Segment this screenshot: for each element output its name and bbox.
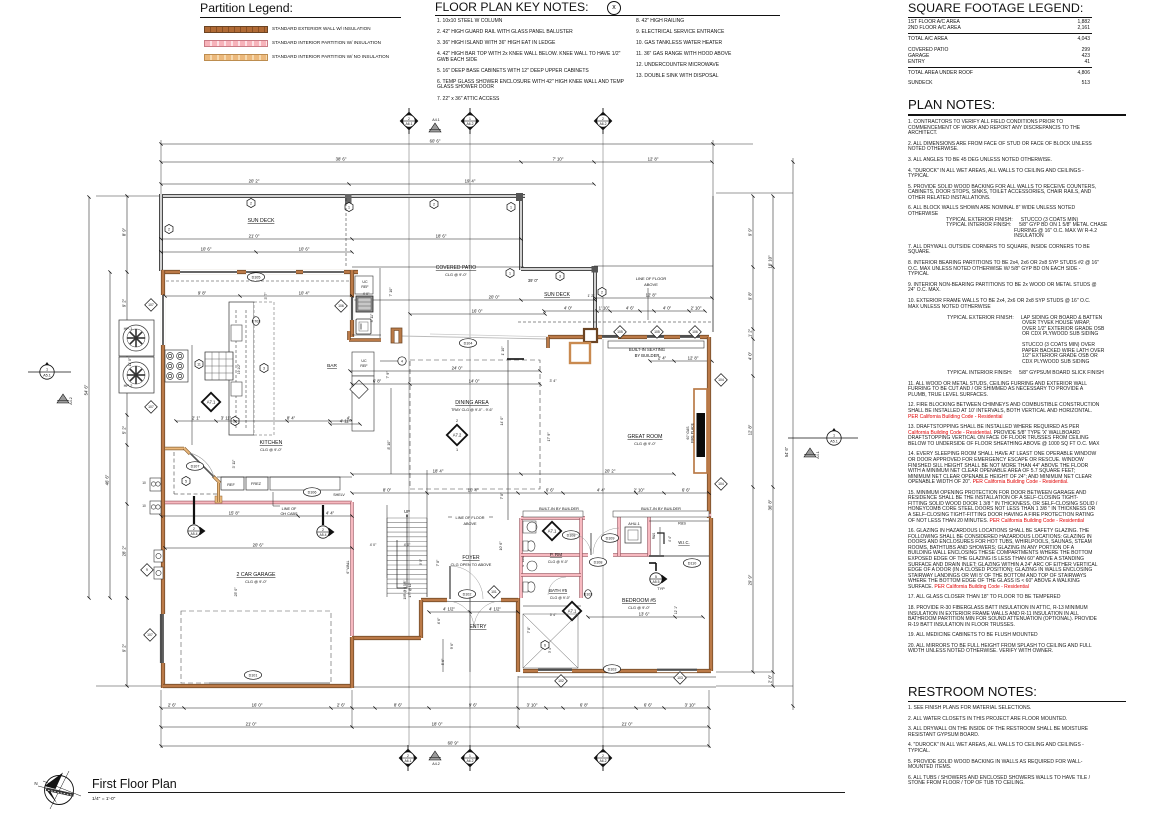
svg-text:107: 107 (148, 303, 154, 307)
stair arrow (406, 514, 408, 588)
garage east pink wall (6in) (350, 502, 353, 636)
svg-text:102: 102 (558, 679, 564, 683)
svg-text:16' 0": 16' 0" (472, 309, 483, 314)
svg-text:A5.4: A5.4 (191, 532, 198, 536)
entry door arc (447, 601, 474, 628)
svg-text:2' 10": 2' 10" (691, 306, 702, 311)
tag 103 (674, 672, 687, 685)
svg-text:D102: D102 (463, 592, 472, 596)
svg-text:1' 10": 1' 10" (501, 346, 505, 356)
deck step wall horizontal (521, 267, 595, 271)
entry north wall w (421, 598, 447, 602)
ext line top left (96, 195, 161, 197)
svg-text:A6.2: A6.2 (600, 122, 607, 126)
kitchen top dims (163, 291, 353, 298)
garage left window (161, 614, 166, 663)
svg-text:REF: REF (227, 483, 235, 487)
sun deck right wall (519, 196, 523, 270)
pink wall bedroom north (613, 513, 711, 516)
deck column (516, 193, 523, 201)
svg-text:5' 4": 5' 4" (550, 613, 557, 617)
svg-text:21' 0": 21' 0" (622, 722, 633, 727)
left dim chain 54'6" (84, 195, 91, 599)
svg-text:UP: UP (404, 509, 410, 514)
AHU unit (625, 527, 641, 543)
svg-text:3' 4": 3' 4" (550, 379, 558, 383)
wic door header (649, 555, 664, 557)
section line 2/A6.2 vertical (602, 131, 604, 745)
svg-text:104: 104 (718, 378, 724, 382)
exterior wall left mid (161, 447, 165, 540)
door tag (584, 590, 593, 599)
svg-text:9' 2": 9' 2" (122, 298, 127, 307)
svg-text:10' 4": 10' 4" (299, 291, 310, 296)
svg-text:CLG @ 9'-0": CLG @ 9'-0" (548, 560, 569, 564)
window GR north 3 (680, 335, 700, 340)
svg-text:COVERED PATIO: COVERED PATIO (436, 265, 476, 271)
deck dim 12'8 (593, 293, 713, 300)
bottom dim chain 1 (159, 703, 710, 710)
bottom dim chain 2 (159, 722, 710, 729)
svg-text:A7.2: A7.2 (453, 433, 462, 438)
door arc ahu (593, 528, 619, 554)
svg-text:10' 4": 10' 4" (468, 488, 479, 493)
tan column (215, 496, 222, 503)
svg-text:REF: REF (361, 285, 369, 289)
svg-text:First Floor Plan: First Floor Plan (92, 777, 177, 791)
tag 102 (555, 675, 568, 688)
svg-text:BY BUILDER: BY BUILDER (635, 353, 660, 358)
closet shelf line (649, 520, 709, 522)
svg-text:8' 10": 8' 10" (387, 440, 391, 450)
svg-text:25' 0": 25' 0" (234, 587, 238, 597)
door tag D110 (683, 559, 700, 568)
svg-text:10: 10 (142, 481, 146, 485)
svg-text:D103: D103 (608, 667, 617, 671)
dining east wall line (507, 340, 509, 520)
HP-1 / HP-2 condenser units (119, 320, 154, 393)
section marker 2/A6.1 top (400, 108, 419, 134)
svg-text:D101: D101 (249, 673, 258, 677)
kitchen lower dims (174, 416, 357, 423)
svg-text:105: 105 (654, 330, 660, 334)
range / stove (165, 350, 188, 382)
uc ref patio (355, 276, 373, 294)
svg-text:4' 0": 4' 0" (404, 543, 411, 547)
patio dim 16'0 (408, 309, 546, 316)
svg-text:20' 2": 20' 2" (249, 179, 260, 184)
dashed patio line (345, 198, 347, 268)
patio nook wall (349, 338, 381, 342)
svg-text:D110: D110 (688, 561, 697, 565)
entry north wall e (501, 598, 518, 602)
svg-text:60' 6": 60' 6" (430, 139, 441, 144)
sun deck top wall (159, 194, 525, 198)
kitchen east wall (350, 270, 354, 337)
title underline (88, 792, 845, 794)
svg-text:A6.1: A6.1 (405, 759, 412, 763)
svg-text:OH CABS: OH CABS (280, 512, 298, 516)
garage door dashed (181, 611, 331, 683)
svg-text:21' 0": 21' 0" (249, 234, 260, 239)
triangle marker A4.2 left (57, 394, 73, 405)
svg-text:1: 1 (833, 433, 835, 437)
P.RM sink (527, 522, 537, 532)
interior elevation A7.1 kitchen (202, 393, 220, 411)
door tag D109 (601, 534, 618, 543)
svg-text:60' 9": 60' 9" (448, 741, 459, 746)
svg-text:1: 1 (469, 754, 471, 758)
svg-text:20' 2": 20' 2" (605, 469, 616, 474)
svg-text:4' 11": 4' 11" (340, 419, 351, 424)
svg-text:7' 9": 7' 9" (386, 371, 390, 379)
svg-text:N: N (34, 781, 37, 786)
svg-text:7' 10": 7' 10" (389, 287, 393, 297)
svg-text:4' 6": 4' 6" (437, 617, 441, 624)
svg-text:CLG @ 9'-0": CLG @ 9'-0" (245, 579, 267, 584)
svg-text:10' 6": 10' 6" (499, 541, 503, 551)
entry west wall (419, 600, 423, 638)
svg-text:12' 8": 12' 8" (688, 356, 699, 361)
svg-text:A6.2: A6.2 (467, 122, 474, 126)
svg-text:D105: D105 (252, 275, 261, 279)
south wall bedroom (523, 669, 711, 673)
key tag 11 range (195, 359, 203, 368)
exterior wall top (kitchen north) (161, 270, 358, 274)
svg-text:D107: D107 (191, 464, 200, 468)
key tag 5 (182, 476, 190, 485)
legend swatch exterior wall (200, 23, 410, 37)
svg-text:A7.1: A7.1 (568, 609, 577, 614)
tan diag small (184, 448, 190, 454)
window tag 2 (430, 199, 438, 208)
AHU closet east (647, 515, 650, 556)
entry door sill (447, 601, 501, 603)
svg-text:6' 8": 6' 8" (580, 703, 589, 708)
svg-text:29' 9": 29' 9" (748, 574, 753, 585)
tag 104 (715, 374, 728, 387)
svg-text:7' 10": 7' 10" (553, 157, 564, 162)
svg-text:2: 2 (168, 227, 170, 231)
dim chain 38'6"/7'10"/12'8" (159, 157, 713, 164)
svg-text:A7.1: A7.1 (207, 400, 216, 405)
svg-text:18' 0": 18' 0" (432, 722, 443, 727)
svg-text:BEDROOM #5: BEDROOM #5 (622, 598, 656, 604)
garage south wall (163, 684, 352, 688)
garage dim 20'6 (163, 543, 353, 550)
svg-text:8' 0": 8' 0" (383, 488, 392, 493)
deck boards (400, 336, 548, 339)
porch slab edge (352, 686, 716, 688)
pink wall bath mid (521, 573, 581, 576)
great room east wall (707, 337, 711, 518)
svg-text:FIRE PLACE: FIRE PLACE (691, 422, 695, 443)
svg-text:36' 8": 36' 8" (768, 499, 773, 510)
tag 9 (141, 564, 154, 577)
wall stub pilaster (584, 329, 597, 342)
svg-text:19 1/2": 19 1/2" (237, 363, 241, 374)
svg-text:2: 2 (407, 754, 409, 758)
plan notes (908, 97, 1126, 660)
legend swatch interior no insulation (200, 51, 410, 65)
svg-text:DINING AREA: DINING AREA (455, 400, 489, 406)
svg-text:4' 0": 4' 0" (564, 306, 573, 311)
svg-text:D104: D104 (464, 341, 473, 345)
square footage legend (908, 1, 1092, 86)
svg-text:2: 2 (408, 117, 410, 121)
svg-text:1: 1 (46, 367, 48, 371)
svg-text:6" WALL: 6" WALL (346, 560, 350, 573)
window kitchen north 1 (180, 270, 237, 275)
pink wall top bath (521, 516, 585, 519)
svg-text:9' 6": 9' 6" (469, 703, 478, 708)
svg-text:LINE OF: LINE OF (282, 507, 297, 511)
dim 13'6 (586, 612, 704, 619)
svg-text:8' 9": 8' 9" (122, 227, 127, 236)
window tag 2 left (165, 224, 173, 233)
AHU closet west (617, 515, 620, 556)
meter boxes (154, 550, 163, 579)
interior elevation A7.2 dining (447, 425, 467, 445)
svg-text:1/4" = 1'-0": 1/4" = 1'-0" (92, 796, 116, 802)
svg-text:2' 6": 2' 6" (168, 703, 177, 708)
patio grill (shaded) (356, 296, 373, 312)
garage east wall lower (350, 637, 354, 688)
svg-text:7' 8": 7' 8" (500, 492, 504, 499)
door tag D101 (244, 671, 261, 680)
window kitchen north 2 (246, 270, 296, 275)
svg-text:2: 2 (602, 117, 604, 121)
outer right dim line 54ft6 (792, 158, 794, 710)
svg-text:1' 2": 1' 2" (588, 294, 596, 298)
entry step wall (352, 636, 421, 640)
dim 4'11 (328, 419, 361, 426)
deck rail dims (542, 306, 706, 313)
seat nook (570, 343, 590, 363)
svg-text:GREAT ROOM: GREAT ROOM (628, 434, 663, 440)
svg-text:3' 11": 3' 11" (232, 459, 236, 468)
patio sink (356, 319, 371, 334)
sun deck left wall (159, 194, 163, 271)
svg-text:D106: D106 (308, 490, 317, 494)
left dim chain segments (122, 194, 129, 687)
bath shower wall line (523, 605, 581, 607)
patio dim 20'0 (350, 295, 596, 302)
door tag D108b (589, 558, 606, 567)
svg-text:R&S: R&S (678, 522, 686, 526)
svg-text:A4.2: A4.2 (69, 397, 73, 404)
window GR north 1 (602, 335, 618, 340)
svg-text:4' 0": 4' 0" (363, 292, 370, 296)
deck column (592, 266, 599, 273)
svg-text:ABOVE: ABOVE (463, 522, 477, 526)
pink wall bath/bed (521, 553, 588, 556)
bedroom east wall (709, 518, 713, 671)
elev A7.1 prm (543, 522, 561, 540)
fireplace surround (694, 389, 707, 473)
svg-text:1: 1 (510, 205, 512, 209)
pink wall west of bath (519, 518, 522, 598)
svg-text:D103: D103 (584, 592, 593, 596)
svg-text:6: 6 (544, 643, 546, 647)
svg-text:2: 2 (433, 202, 435, 206)
svg-text:LINE OF FLOOR: LINE OF FLOOR (456, 516, 485, 520)
svg-text:2: 2 (601, 290, 603, 294)
svg-text:CLG @ 9'-0": CLG @ 9'-0" (550, 596, 571, 600)
svg-text:9' 8": 9' 8" (198, 291, 207, 296)
window GR north 2 (647, 335, 664, 340)
section marker bottom 1 (399, 745, 418, 771)
window kitchen east (350, 297, 355, 320)
wic south line (649, 555, 709, 557)
svg-text:4' 6": 4' 6" (626, 306, 635, 311)
tag 107 garage (144, 629, 157, 642)
svg-text:46' 6": 46' 6" (105, 474, 110, 485)
partition legend (200, 1, 410, 65)
right inner dim chain (748, 194, 755, 673)
svg-text:LINE OF FLOOR: LINE OF FLOOR (636, 276, 667, 281)
svg-text:D108: D108 (594, 560, 603, 564)
svg-text:BAR: BAR (327, 363, 337, 369)
kitchen island (229, 302, 254, 435)
deck dim 10'6 x2 (159, 247, 353, 254)
door tag D107 (186, 462, 203, 471)
svg-text:SHELV: SHELV (333, 493, 345, 497)
svg-text:18' 6": 18' 6" (436, 234, 447, 239)
dims 6-8/14-0 (350, 379, 541, 386)
seat dims (648, 356, 713, 363)
bath5 sink (527, 561, 537, 571)
stairs (387, 518, 427, 597)
svg-text:10' 6": 10' 6" (201, 247, 212, 252)
svg-text:2 CAR GARAGE: 2 CAR GARAGE (237, 572, 276, 578)
stoop edge (518, 676, 716, 678)
exterior garage left wall (161, 540, 165, 688)
svg-text:9' 9": 9' 9" (419, 559, 423, 565)
svg-text:2' 6": 2' 6" (337, 703, 346, 708)
ext line bottom left (96, 685, 161, 687)
svg-text:10' 6": 10' 6" (299, 247, 310, 252)
door tag D103 (603, 665, 620, 674)
door tag D108 (562, 531, 579, 540)
wall oven cabinet (205, 352, 233, 380)
svg-text:12' 8": 12' 8" (648, 157, 659, 162)
bath5 toilet (527, 582, 535, 592)
svg-text:12' 8": 12' 8" (646, 293, 657, 298)
svg-text:5: 5 (655, 575, 657, 579)
svg-text:CLG OPEN TO ABOVE: CLG OPEN TO ABOVE (451, 562, 492, 567)
svg-text:A4.1: A4.1 (432, 118, 439, 122)
svg-text:7' 8": 7' 8" (527, 626, 531, 633)
svg-text:9: 9 (146, 568, 148, 572)
deck step wall vertical (593, 269, 597, 333)
svg-text:TRAY CLG @ 9'-0" - 9'-6": TRAY CLG @ 9'-0" - 9'-6" (451, 408, 494, 412)
dining tray dashed (410, 360, 540, 489)
garage north pink wall (165, 501, 352, 504)
svg-text:8' 6": 8' 6" (394, 703, 403, 708)
garage window dark (160, 614, 162, 663)
patio top edge line (352, 266, 524, 268)
svg-text:FREZ: FREZ (251, 482, 262, 486)
svg-text:9' 9": 9' 9" (748, 227, 753, 236)
svg-text:103: 103 (677, 676, 683, 680)
svg-text:ENTRY: ENTRY (470, 624, 488, 630)
door tag D104 (459, 339, 476, 348)
svg-text:39' 0": 39' 0" (528, 278, 539, 283)
window tag 2 (247, 198, 255, 207)
svg-text:6' 6": 6' 6" (546, 488, 555, 493)
svg-text:1' 2": 1' 2" (748, 328, 753, 337)
svg-text:R&S: R&S (652, 533, 656, 540)
svg-text:14' 0": 14' 0" (469, 379, 480, 384)
svg-text:11' 0": 11' 0" (128, 357, 132, 366)
svg-text:24' 0": 24' 0" (452, 366, 463, 371)
svg-text:104: 104 (718, 482, 724, 486)
svg-text:60" GAS: 60" GAS (686, 426, 690, 440)
svg-text:ABOVE: ABOVE (644, 282, 658, 287)
svg-text:REF: REF (360, 364, 368, 368)
svg-text:2: 2 (193, 527, 195, 531)
svg-text:A5.4: A5.4 (320, 533, 327, 537)
svg-text:3' 7": 3' 7" (264, 292, 268, 300)
bar counter (352, 352, 374, 431)
svg-text:4' 4": 4' 4" (597, 488, 606, 493)
svg-text:2: 2 (456, 419, 458, 423)
key tag 6 shower (541, 640, 549, 649)
section marker 2/A6.2 top (594, 108, 613, 134)
refrigerator (221, 477, 244, 490)
svg-text:11: 11 (197, 362, 201, 366)
svg-text:38' 6": 38' 6" (336, 157, 347, 162)
svg-text:TYP: TYP (657, 587, 665, 591)
tag 101 (488, 586, 501, 599)
window tag 1 (507, 202, 515, 211)
svg-text:17T @ 12": 17T @ 12" (408, 582, 412, 597)
pink wall bed closet (613, 553, 649, 556)
great room north wall (548, 335, 709, 339)
svg-text:19' 4": 19' 4" (465, 179, 476, 184)
svg-text:2' 1": 2' 1" (192, 416, 201, 421)
svg-text:4' 0": 4' 0" (370, 543, 377, 547)
entry east wall (516, 598, 520, 672)
ext line right top (712, 140, 714, 332)
elev A7.1 bath (563, 602, 581, 620)
svg-text:CLG @ 9'-0": CLG @ 9'-0" (628, 605, 650, 610)
svg-text:6' 8": 6' 8" (373, 379, 382, 384)
window kitchen north 3 (303, 270, 344, 275)
legend swatch interior insulated (200, 37, 410, 51)
dims 15-8 4-4 (159, 511, 353, 518)
svg-text:UC: UC (361, 359, 367, 363)
svg-text:5' 2": 5' 2" (122, 425, 127, 434)
foyer door (449, 566, 451, 599)
tag 106 (689, 326, 702, 339)
svg-text:18' 4": 18' 4" (433, 469, 444, 474)
chain y493 (350, 488, 710, 495)
window tag 2 deck (598, 287, 606, 296)
section marker 1/A6.2 top (461, 108, 480, 134)
svg-text:A4.2: A4.2 (432, 762, 439, 766)
svg-text:D703: D703 (252, 319, 261, 323)
svg-text:4: 4 (401, 359, 403, 363)
island sink (231, 325, 242, 341)
svg-text:21' 0": 21' 0" (246, 722, 257, 727)
tag 107 b (145, 401, 158, 414)
tag 105 (614, 326, 627, 339)
svg-text:HP-1: HP-1 (124, 327, 133, 331)
svg-text:2' 0": 2' 0" (768, 674, 773, 683)
svg-text:54' 6": 54' 6" (784, 446, 789, 457)
